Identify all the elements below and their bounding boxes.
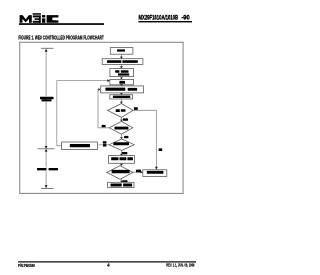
fail box right bbox=[143, 170, 167, 177]
logo rule bbox=[19, 23, 104, 25]
E reversed bbox=[33, 15, 41, 17]
diamond D2 bbox=[109, 121, 133, 134]
svg-text:REV. 1.1, JUN. 08, 1998: REV. 1.1, JUN. 08, 1998 bbox=[166, 263, 194, 268]
arrowhead into box2 bbox=[120, 57, 123, 59]
svg-text:P/N:PM0599: P/N:PM0599 bbox=[18, 263, 35, 268]
box8 end bbox=[108, 182, 134, 187]
label no (left of D3) on loop wire bbox=[103, 144, 106, 146]
C bbox=[47, 15, 59, 23]
box5 wide bbox=[101, 86, 144, 93]
part number bbox=[139, 15, 193, 23]
wire: D4 yes branch right bbox=[133, 171, 142, 173]
label yes (below D2) bbox=[124, 136, 128, 138]
wire: loop from D3 via retry box to box4 bbox=[99, 144, 110, 146]
box START bbox=[110, 48, 133, 55]
dimension line bbox=[45, 48, 47, 188]
arrowhead into D1 bbox=[120, 102, 123, 104]
label yes (below D1) bbox=[123, 118, 128, 120]
footer rule bbox=[18, 261, 196, 262]
wire: D1 no branch right bbox=[133, 110, 156, 169]
diamond D4 bbox=[107, 166, 134, 180]
box6 bbox=[110, 95, 133, 99]
arrowhead into D4 bbox=[120, 164, 123, 166]
svg-text:-90: -90 bbox=[181, 15, 189, 22]
arrowhead into box8 bbox=[120, 181, 123, 183]
label no (D3 left) bbox=[103, 141, 107, 143]
I bbox=[42, 15, 45, 17]
arrowhead into box7 bbox=[120, 154, 123, 156]
label no (D2 left) bbox=[102, 125, 106, 127]
box3 two-line bbox=[110, 69, 134, 77]
label yes (below D3) bbox=[122, 152, 127, 154]
arrowhead into box4 bbox=[120, 78, 123, 80]
wire: main column spine bbox=[120, 54, 122, 183]
arrowhead into fail box top bbox=[155, 167, 158, 170]
svg-text:FIGURE 1. WE# CONTROLLED PROGR: FIGURE 1. WE# CONTROLLED PROGRAM FLOWCHA… bbox=[18, 36, 104, 42]
label no (D1 right) bbox=[134, 107, 138, 110]
figure frame bbox=[19, 42, 183, 194]
diamond D3 bbox=[109, 139, 134, 151]
dim tick middle bbox=[38, 148, 55, 150]
MXIC logo bbox=[20, 13, 59, 23]
label yes (D4 right) bbox=[136, 170, 141, 173]
wire: loop from D2 to box5 bbox=[98, 89, 109, 127]
label no (on vertical branch) bbox=[159, 148, 163, 151]
svg-text:MX29F1610A/1610B: MX29F1610A/1610B bbox=[139, 15, 179, 22]
retry loop box bbox=[62, 142, 98, 150]
arrowhead into box4 from retry loop bbox=[107, 79, 110, 82]
box7 bbox=[109, 156, 135, 164]
arrowhead into D2 bbox=[120, 120, 123, 122]
M bbox=[20, 15, 32, 23]
dim label upper bbox=[39, 96, 55, 101]
arrowhead into fail box left bbox=[141, 171, 143, 174]
arrowhead into box3 bbox=[120, 66, 123, 68]
label no (below D4) bbox=[122, 180, 127, 182]
dim label lower bbox=[37, 168, 60, 171]
arrowhead into box6 bbox=[120, 93, 123, 95]
arrowhead into D3 bbox=[120, 137, 123, 139]
dim tick bottom bbox=[41, 188, 54, 190]
arrowhead into box5 bbox=[120, 84, 123, 86]
box4 bbox=[110, 79, 134, 84]
diamond D1 bbox=[108, 104, 134, 118]
dim tick top bbox=[41, 47, 54, 49]
box2 command sequence bbox=[102, 59, 143, 65]
arrowhead into box5 from D2 loop bbox=[98, 88, 100, 91]
